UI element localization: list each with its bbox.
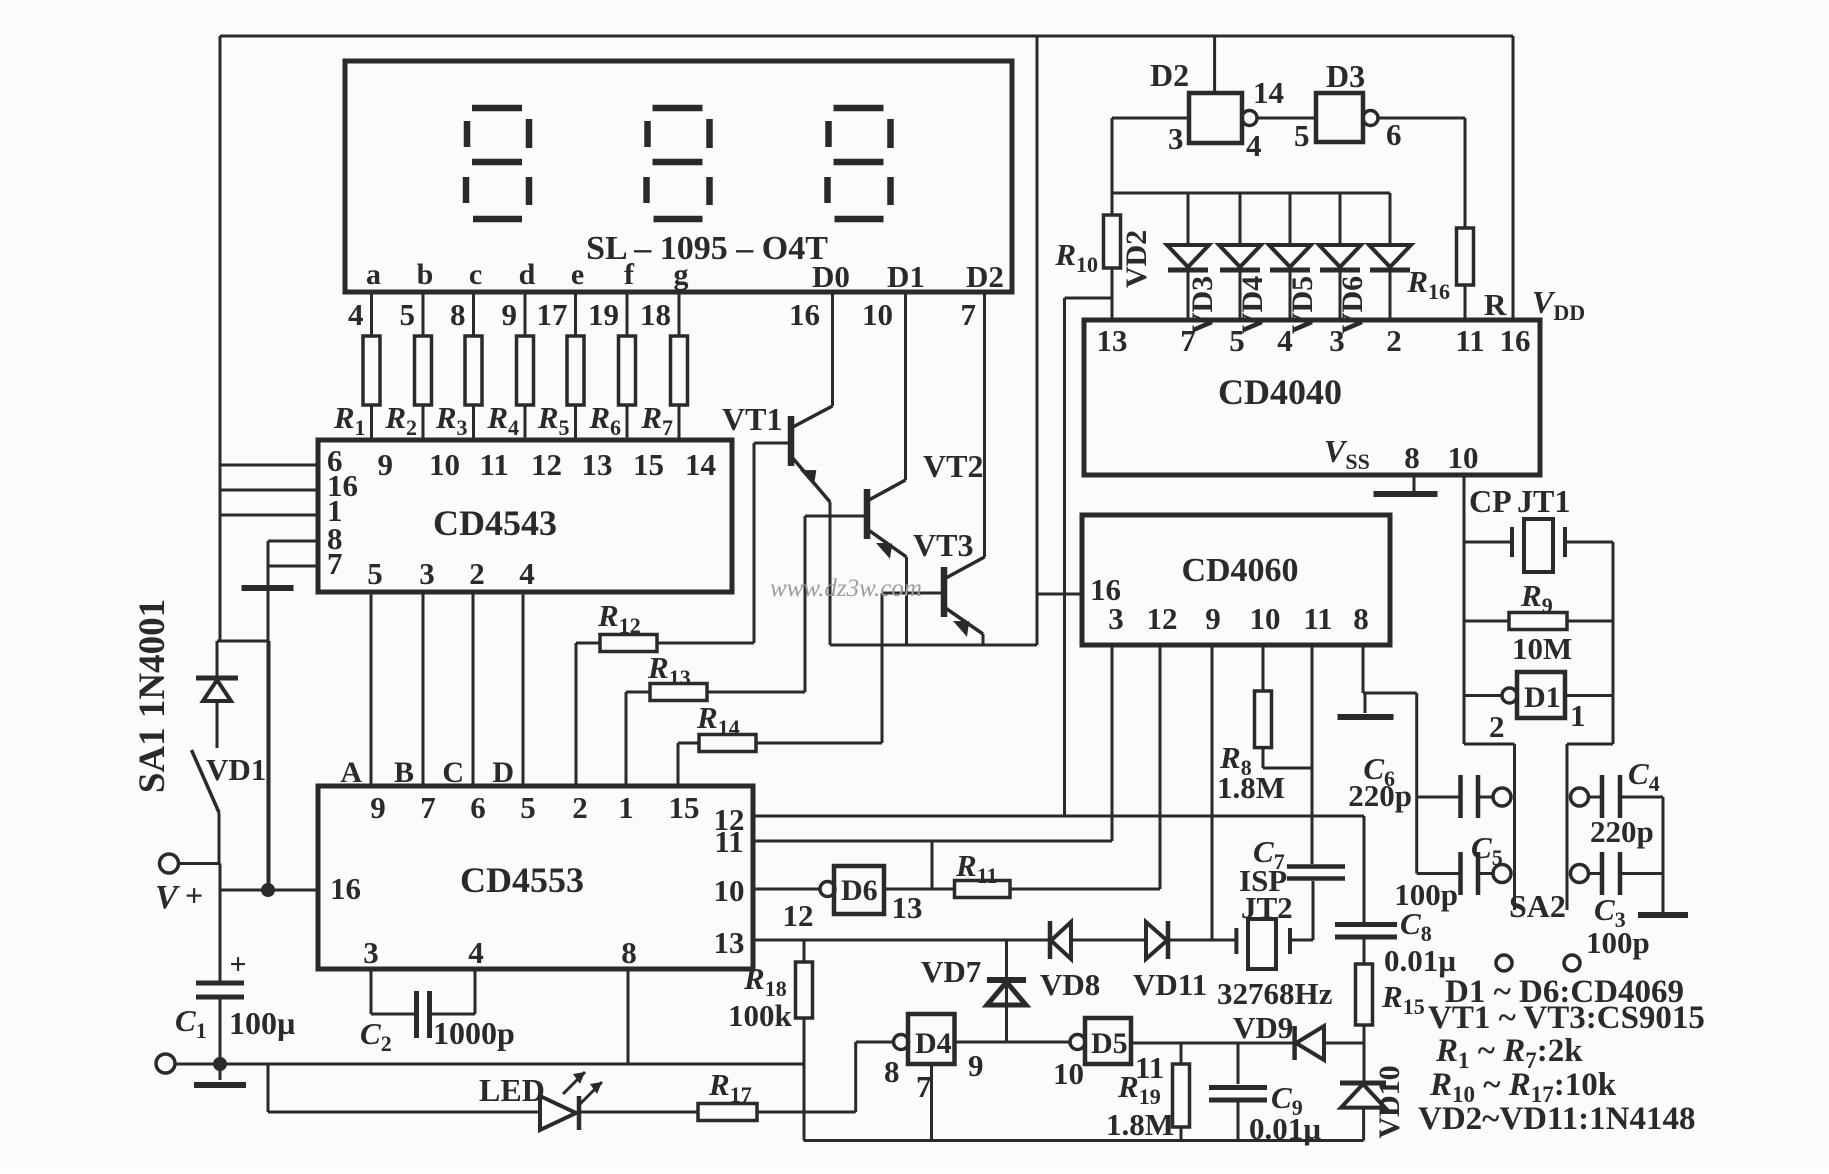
svg-text:2: 2 xyxy=(572,790,588,825)
svg-text:D4: D4 xyxy=(915,1027,952,1060)
svg-text:8: 8 xyxy=(621,935,637,970)
svg-text:4: 4 xyxy=(1246,128,1262,163)
svg-text:SA1 1N4001: SA1 1N4001 xyxy=(132,599,173,793)
svg-text:10: 10 xyxy=(862,297,893,332)
svg-text:1: 1 xyxy=(1570,698,1586,733)
svg-text:0.01µ: 0.01µ xyxy=(1384,943,1456,978)
svg-text:13: 13 xyxy=(582,447,613,482)
svg-text:7: 7 xyxy=(327,546,343,581)
svg-text:CD4553: CD4553 xyxy=(460,860,584,900)
svg-text:16: 16 xyxy=(330,871,361,906)
svg-text:5: 5 xyxy=(367,556,383,591)
svg-text:12: 12 xyxy=(783,898,814,933)
svg-text:a: a xyxy=(366,258,381,291)
svg-text:11: 11 xyxy=(1303,601,1332,636)
svg-text:e: e xyxy=(571,258,584,291)
svg-text:D1: D1 xyxy=(887,259,925,294)
svg-text:9: 9 xyxy=(502,297,518,332)
svg-text:8: 8 xyxy=(450,297,466,332)
svg-text:D2: D2 xyxy=(966,259,1004,294)
svg-text:CD4060: CD4060 xyxy=(1181,552,1298,589)
svg-text:11: 11 xyxy=(1455,323,1484,358)
svg-text:10: 10 xyxy=(714,873,745,908)
svg-text:+: + xyxy=(185,877,203,913)
svg-text:8: 8 xyxy=(1353,601,1369,636)
svg-text:VD10: VD10 xyxy=(1373,1065,1406,1138)
svg-text:D5: D5 xyxy=(1091,1027,1128,1060)
svg-text:7: 7 xyxy=(420,790,436,825)
svg-text:2: 2 xyxy=(1489,709,1505,744)
svg-text:5: 5 xyxy=(400,297,416,332)
svg-text:10: 10 xyxy=(1053,1056,1084,1091)
svg-text:SA2: SA2 xyxy=(1509,888,1566,924)
svg-text:1.8M: 1.8M xyxy=(1106,1107,1174,1142)
svg-text:14: 14 xyxy=(1253,75,1284,110)
svg-text:220p: 220p xyxy=(1590,814,1654,849)
svg-text:g: g xyxy=(674,258,689,291)
svg-text:JT1: JT1 xyxy=(1517,483,1570,519)
svg-text:10M: 10M xyxy=(1512,631,1572,666)
svg-text:9: 9 xyxy=(968,1048,984,1083)
svg-text:VT1: VT1 xyxy=(722,401,782,437)
svg-text:+: + xyxy=(229,948,246,981)
svg-text:15: 15 xyxy=(669,790,700,825)
svg-text:13: 13 xyxy=(892,890,923,925)
svg-text:VT3: VT3 xyxy=(913,527,973,563)
svg-text:VD2: VD2 xyxy=(1120,230,1153,288)
svg-text:16: 16 xyxy=(789,297,820,332)
svg-text:VT2: VT2 xyxy=(923,448,983,484)
svg-text:D1: D1 xyxy=(1524,681,1561,714)
svg-text:2: 2 xyxy=(469,556,485,591)
svg-text:VD8: VD8 xyxy=(1040,967,1100,1002)
svg-text:4: 4 xyxy=(468,935,484,970)
svg-text:7: 7 xyxy=(916,1069,932,1104)
svg-text:R: R xyxy=(1484,287,1507,322)
svg-text:D0: D0 xyxy=(812,259,850,294)
svg-text:1.8M: 1.8M xyxy=(1217,770,1285,805)
svg-text:VD9: VD9 xyxy=(1233,1010,1293,1045)
svg-text:19: 19 xyxy=(588,297,619,332)
svg-text:9: 9 xyxy=(1205,601,1221,636)
svg-text:1: 1 xyxy=(618,790,634,825)
svg-text:6: 6 xyxy=(470,790,486,825)
svg-text:D2: D2 xyxy=(1150,57,1189,93)
svg-text:11: 11 xyxy=(714,824,743,859)
svg-text:D3: D3 xyxy=(1326,58,1365,94)
svg-text:5: 5 xyxy=(520,790,536,825)
svg-text:3: 3 xyxy=(1108,601,1124,636)
svg-text:d: d xyxy=(519,258,536,291)
svg-text:10: 10 xyxy=(1448,440,1479,475)
svg-text:CP: CP xyxy=(1469,483,1512,519)
svg-text:5: 5 xyxy=(1229,323,1245,358)
svg-text:7: 7 xyxy=(1180,323,1196,358)
svg-text:www.dz3w.com: www.dz3w.com xyxy=(770,575,922,602)
svg-text:3: 3 xyxy=(363,935,379,970)
svg-text:3: 3 xyxy=(1329,323,1345,358)
svg-text:32768Hz: 32768Hz xyxy=(1217,976,1333,1011)
svg-text:1000p: 1000p xyxy=(433,1015,515,1051)
svg-text:11: 11 xyxy=(1135,1050,1164,1085)
svg-text:18: 18 xyxy=(640,297,671,332)
svg-text:c: c xyxy=(469,258,482,291)
svg-text:7: 7 xyxy=(961,297,977,332)
svg-text:12: 12 xyxy=(531,447,562,482)
svg-text:3: 3 xyxy=(1168,121,1184,156)
svg-text:D6: D6 xyxy=(841,874,878,907)
svg-text:220p: 220p xyxy=(1348,778,1412,813)
svg-text:15: 15 xyxy=(633,447,664,482)
svg-text:SL – 1095 – O4T: SL – 1095 – O4T xyxy=(586,230,828,267)
svg-text:4: 4 xyxy=(519,556,535,591)
svg-text:100µ: 100µ xyxy=(229,1005,295,1041)
svg-text:9: 9 xyxy=(370,790,386,825)
svg-text:5: 5 xyxy=(1294,118,1310,153)
svg-text:12: 12 xyxy=(1147,601,1178,636)
svg-text:CD4543: CD4543 xyxy=(433,503,557,543)
svg-text:VD7: VD7 xyxy=(921,954,981,989)
svg-text:0.01µ: 0.01µ xyxy=(1249,1111,1321,1146)
svg-text:8: 8 xyxy=(884,1054,900,1089)
svg-text:CD4040: CD4040 xyxy=(1218,372,1342,412)
svg-text:2: 2 xyxy=(1386,323,1402,358)
svg-text:8: 8 xyxy=(1404,440,1420,475)
svg-text:100k: 100k xyxy=(728,998,793,1033)
svg-text:16: 16 xyxy=(1500,323,1531,358)
svg-text:VD2~VD11:1N4148: VD2~VD11:1N4148 xyxy=(1418,1101,1696,1137)
svg-text:LED: LED xyxy=(479,1072,545,1108)
svg-text:3: 3 xyxy=(419,556,435,591)
svg-text:10: 10 xyxy=(429,447,460,482)
svg-text:V: V xyxy=(155,879,180,916)
svg-text:JT2: JT2 xyxy=(1241,890,1293,925)
svg-text:13: 13 xyxy=(1097,323,1128,358)
svg-text:VD11: VD11 xyxy=(1133,967,1207,1002)
svg-text:11: 11 xyxy=(480,447,509,482)
svg-text:4: 4 xyxy=(1277,323,1293,358)
svg-text:VT1 ~ VT3:CS9015: VT1 ~ VT3:CS9015 xyxy=(1428,1000,1705,1036)
svg-text:100p: 100p xyxy=(1586,925,1650,960)
svg-text:10: 10 xyxy=(1250,601,1281,636)
svg-text:13: 13 xyxy=(714,925,745,960)
svg-text:6: 6 xyxy=(1386,117,1402,152)
svg-text:4: 4 xyxy=(348,297,364,332)
svg-text:17: 17 xyxy=(537,297,568,332)
svg-text:14: 14 xyxy=(685,447,716,482)
svg-text:9: 9 xyxy=(378,447,394,482)
svg-text:f: f xyxy=(624,258,635,291)
svg-text:b: b xyxy=(417,258,434,291)
svg-text:VD1: VD1 xyxy=(206,752,266,787)
